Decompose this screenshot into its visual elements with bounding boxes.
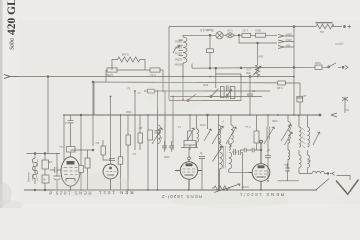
switch row <box>169 89 241 102</box>
coil L12 <box>308 115 310 147</box>
coil L7 <box>231 115 233 147</box>
resistor R11 <box>42 175 49 183</box>
title Saba 420GL <box>6 0 18 50</box>
grid capacitor C8 <box>50 114 94 190</box>
terminal mains <box>344 26 346 28</box>
resistor R7 <box>278 81 286 85</box>
resistor R18 <box>118 157 123 164</box>
left column verticals <box>47 76 173 190</box>
svg-text:Saba: Saba <box>10 38 16 50</box>
resistor R6 zigzag <box>112 57 145 70</box>
wire v93 <box>92 82 94 146</box>
coil L9 <box>220 141 223 190</box>
antenna coil block <box>27 153 61 191</box>
wire v135 <box>134 91 136 150</box>
tube V3 RENS1820 <box>175 160 202 190</box>
selector taps <box>179 40 184 56</box>
misc junction dots <box>63 76 300 191</box>
speaker cone <box>336 180 359 195</box>
switch S4 <box>210 96 212 98</box>
resistor R12 <box>85 158 90 168</box>
wire drop from lamp rail <box>209 35 211 49</box>
coil L11 <box>299 115 301 147</box>
wire rc rail <box>106 69 163 71</box>
voltage selector coil L16 <box>173 37 192 101</box>
paper tone inside schematic <box>18 20 360 204</box>
capacitor C2 <box>315 65 322 69</box>
speaker circuit <box>299 171 359 194</box>
wire lamp rail <box>183 35 277 37</box>
resistor R5 <box>150 68 160 72</box>
capacitor C4 <box>155 131 161 133</box>
filter box <box>216 68 241 100</box>
switch S3 <box>187 99 189 101</box>
resistor R20 <box>230 87 235 99</box>
pickup line <box>192 63 348 70</box>
trimmer T1 <box>152 128 162 144</box>
capacitor C14 electrolytic <box>285 163 290 181</box>
capacitor C3 <box>247 77 253 116</box>
trimmer T5 <box>264 127 274 144</box>
trimmer T3 <box>212 126 223 144</box>
trimmer T4 <box>226 127 236 144</box>
parts near V4 <box>240 148 271 179</box>
capacitor C6 <box>42 160 49 169</box>
tube V2 REN1821 <box>103 164 118 190</box>
wire v64 <box>64 115 71 160</box>
wire right vertical <box>293 27 295 116</box>
wire frame left <box>168 27 170 101</box>
potentiometer P3 <box>212 186 230 190</box>
resistor R4 <box>107 68 117 72</box>
wire to speaker <box>337 176 351 181</box>
capacitor C5 <box>267 127 269 140</box>
svg-text:420 GL: 420 GL <box>6 0 18 35</box>
trimmer T8 <box>285 132 293 145</box>
wire mid rail <box>10 76 294 78</box>
coil L8 <box>288 115 290 150</box>
fuse Si <box>226 33 235 39</box>
anode resistor R22 <box>181 141 205 191</box>
wire rail 68 stub <box>191 64 193 69</box>
wire box frame <box>216 68 241 100</box>
trimmer T9 <box>313 132 320 145</box>
wire v110 tube2 top <box>110 97 112 165</box>
resistor R9 <box>148 130 153 140</box>
trimmer T6 <box>281 125 291 142</box>
trimmer T2 <box>204 115 211 141</box>
capacitor C13 <box>265 150 271 180</box>
capacitor C16 <box>79 166 84 173</box>
lamp LP1 <box>216 32 223 39</box>
wire ant top <box>27 152 61 154</box>
top middle small parts <box>226 76 303 116</box>
capacitor C1 <box>207 49 214 53</box>
capacitor C18 <box>199 157 205 191</box>
resistor R3 <box>256 33 266 37</box>
resistor R17 mains dropper <box>316 24 334 29</box>
capacitor C9 <box>109 158 115 160</box>
trimmer T7 <box>213 146 223 162</box>
wire v48 <box>47 77 49 154</box>
R-C network upper left <box>94 57 278 115</box>
coupling capacitors C22 C23 <box>240 148 261 152</box>
coil L4 <box>158 125 160 143</box>
wire v165 <box>164 91 166 150</box>
wire heater return <box>239 35 277 43</box>
capacitor C12 <box>169 141 174 152</box>
coil L13 <box>299 150 301 173</box>
potentiometer P2 <box>188 131 193 143</box>
wire rail y96 <box>170 96 262 98</box>
resistor R15 <box>138 133 143 143</box>
switch S2 <box>328 63 336 68</box>
contact <box>330 172 335 176</box>
wire pickup rail <box>192 66 341 69</box>
wire switch <box>169 100 241 102</box>
capacitor C11 <box>162 141 167 152</box>
resistor R19 <box>221 87 225 98</box>
output transformer <box>285 115 321 181</box>
wire top rail <box>169 26 342 28</box>
coil L6 <box>219 115 221 190</box>
capacitor C20 <box>239 150 243 190</box>
bottom rail <box>24 181 317 190</box>
resistor R13 <box>101 146 106 155</box>
antenna star terminal <box>342 97 348 113</box>
wire v70 tube1 top <box>68 115 74 157</box>
terminal left arrow <box>4 75 10 79</box>
resistor R10 <box>254 131 259 143</box>
wire rail y91 <box>144 90 270 92</box>
IF transformer <box>213 141 249 190</box>
terminal Pu <box>331 113 337 117</box>
selector arrow <box>173 45 180 53</box>
wire v148 <box>147 115 149 190</box>
wire v120 <box>120 115 122 157</box>
misc small value labels <box>59 86 277 158</box>
frame antenna coil L1 <box>32 153 37 184</box>
capacitor C21 electrolytic <box>297 96 303 102</box>
voltage taps arrows <box>278 35 294 38</box>
resistor R14 <box>126 135 131 145</box>
wire v173 <box>172 97 174 151</box>
main mid rail <box>4 75 337 118</box>
switch S5 <box>316 179 329 190</box>
resistor R23 <box>148 89 155 93</box>
tube V4 RENS1820-2 <box>248 140 270 190</box>
wires to rails <box>106 70 163 91</box>
parts near V2 <box>101 115 174 190</box>
wire stub secondary <box>278 180 300 182</box>
wire rail y82 <box>94 81 278 84</box>
tuning section coils and trimmers <box>152 114 291 190</box>
coil L10 <box>229 141 248 172</box>
resistor R2 <box>242 33 251 37</box>
terminal TB <box>342 66 344 68</box>
resistor R24 <box>67 147 76 153</box>
wire bottom rail <box>24 189 317 191</box>
capacitor C7 <box>54 153 61 190</box>
potentiometer P1 <box>257 43 259 65</box>
capacitor C17 <box>226 86 228 99</box>
tube V1 RENS1823d <box>61 157 80 190</box>
coil L15 <box>299 171 328 173</box>
wire v157 <box>157 91 159 190</box>
heater rail with lamps <box>183 32 277 39</box>
coil L17 <box>288 150 290 171</box>
capacitor C19 <box>232 149 237 155</box>
trimmer T10 <box>226 90 232 98</box>
coil L5 <box>197 115 199 147</box>
wire rail y115 <box>64 114 320 116</box>
volume potentiometer <box>212 184 240 193</box>
coil L14 <box>308 150 310 173</box>
